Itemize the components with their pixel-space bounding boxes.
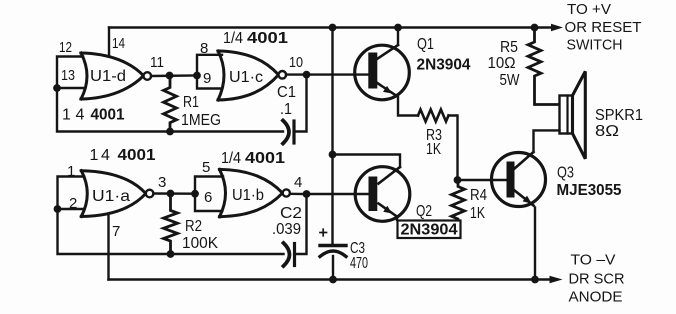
resistor R3 — [418, 110, 449, 122]
svg-text:8: 8 — [200, 40, 208, 57]
wire top +V rail — [109, 26, 552, 28]
svg-text:2N3904: 2N3904 — [417, 57, 471, 74]
svg-text:4: 4 — [101, 147, 110, 164]
svg-text:4001: 4001 — [247, 30, 288, 47]
svg-text:6: 6 — [204, 189, 212, 206]
wire bottom -V rail — [109, 278, 554, 280]
svg-text:R1: R1 — [183, 94, 199, 111]
C3 plus sign — [320, 232, 327, 234]
wire Q2 emitter stub — [396, 217, 398, 220]
wire V+ branch down (rail to Q2 collector and C3) — [331, 28, 333, 245]
node R5 top on rail — [531, 24, 539, 32]
svg-text:7: 7 — [112, 223, 120, 240]
node bubble U1-a output — [146, 190, 154, 198]
svg-text:TO –V: TO –V — [571, 252, 616, 269]
op-amp U1-b NOR gate body — [220, 169, 283, 216]
svg-text:4001: 4001 — [91, 107, 125, 124]
wire branch to Q2 collector — [333, 155, 401, 168]
wire feedback2 left leg — [58, 209, 284, 254]
svg-text:1/4: 1/4 — [223, 30, 243, 47]
wire R3 to node — [449, 116, 458, 181]
svg-text:C2: C2 — [280, 205, 302, 222]
svg-text:1MEG: 1MEG — [181, 112, 221, 129]
svg-text:.039: .039 — [272, 221, 301, 238]
wire C1 right riser — [295, 75, 307, 132]
svg-text:R2: R2 — [185, 218, 202, 235]
svg-text:C1: C1 — [277, 84, 296, 101]
svg-text:R4: R4 — [470, 187, 487, 204]
wire pin 3 to U1-b input — [154, 192, 196, 195]
wire C2 right riser — [290, 194, 307, 254]
capacitor C3 — [320, 244, 346, 247]
speaker SPKR1 — [560, 96, 573, 134]
node Q2-collector branch on rail — [329, 24, 337, 32]
capacitor C1 — [283, 121, 289, 144]
svg-text:2N3904: 2N3904 — [401, 222, 458, 239]
node R2 top tap — [167, 190, 175, 198]
svg-text:3: 3 — [158, 174, 166, 191]
svg-text:12: 12 — [59, 39, 72, 56]
op-amp U1-c NOR gate body — [218, 51, 279, 100]
node U1-c bracket junction — [193, 72, 201, 80]
svg-text:9: 9 — [203, 70, 211, 87]
svg-text:4: 4 — [294, 174, 302, 191]
wire pin 11 to U1-c input — [151, 74, 197, 77]
svg-text:ANODE: ANODE — [569, 289, 623, 306]
svg-text:R5: R5 — [500, 39, 518, 56]
svg-text:8Ω: 8Ω — [595, 123, 619, 140]
svg-text:4001: 4001 — [118, 147, 156, 164]
op-amp U1-a NOR gate body — [81, 171, 146, 217]
wire pin 10 to Q1 base — [286, 73, 368, 75]
node U1-a inputs junction — [54, 205, 62, 213]
node R1 bottom — [166, 128, 174, 136]
node pin 4 junction — [303, 190, 311, 198]
node bubble U1-d output — [144, 72, 152, 80]
svg-text:Q3: Q3 — [557, 165, 574, 182]
svg-text:5W: 5W — [500, 72, 521, 89]
wire Q1 collector — [397, 28, 399, 46]
svg-text:Q1: Q1 — [417, 36, 434, 53]
svg-text:13: 13 — [61, 67, 75, 84]
transistor Q3 — [492, 153, 546, 207]
wire U1-c input bracket pins 8,9 — [197, 55, 222, 89]
node Q1 collector on rail — [394, 24, 402, 32]
svg-text:Q2: Q2 — [416, 203, 432, 220]
node U1-b bracket junction — [191, 190, 199, 198]
wire pin 7 down — [107, 215, 109, 280]
wire pin 14 of U1-d to rail — [108, 28, 110, 56]
svg-text:4001: 4001 — [245, 150, 285, 167]
svg-text:470: 470 — [350, 255, 368, 272]
svg-text:U1-d: U1-d — [90, 68, 126, 85]
svg-text:1: 1 — [67, 163, 75, 180]
svg-text:1: 1 — [90, 147, 99, 164]
svg-text:TO +V: TO +V — [567, 1, 611, 18]
svg-text:.1: .1 — [280, 101, 292, 118]
node pin 10 junction — [303, 71, 311, 79]
op-amp U1-d NOR gate body — [81, 53, 144, 99]
svg-text:5: 5 — [202, 159, 210, 176]
svg-text:2: 2 — [69, 195, 77, 212]
transistor Q1 — [355, 45, 410, 100]
node C3 bottom on rail — [329, 276, 337, 284]
node Q3 emitter on rail — [531, 276, 539, 284]
node R3/R4/Q3-base junction — [454, 176, 462, 184]
wire node to Q3 base — [458, 179, 506, 181]
svg-text:1K: 1K — [470, 205, 485, 222]
node U1-d inputs junction — [53, 84, 61, 92]
svg-text:MJE3055: MJE3055 — [557, 182, 622, 199]
svg-text:100K: 100K — [182, 235, 218, 252]
svg-text:4: 4 — [76, 107, 85, 124]
wire speaker bottom to Q3 collector — [534, 130, 560, 152]
svg-text:1K: 1K — [426, 141, 441, 158]
svg-text:OR RESET: OR RESET — [565, 19, 642, 36]
svg-text:U1·b: U1·b — [232, 187, 264, 204]
capacitor C2 — [284, 243, 290, 266]
svg-text:SPKR1: SPKR1 — [595, 107, 643, 124]
wire U1-d input bracket pins 12,13 — [57, 57, 83, 89]
resistor R2 — [164, 194, 178, 255]
arrow to -V — [550, 276, 563, 284]
node R2 bottom — [167, 250, 175, 258]
svg-text:10: 10 — [289, 54, 303, 71]
svg-text:14: 14 — [112, 35, 125, 52]
resistor R5 — [528, 28, 560, 105]
resistor R1 — [164, 76, 177, 132]
transistor Q2 label box 2N3904 — [398, 221, 461, 239]
node bubble U1-b output — [283, 189, 290, 196]
wire U1-a input bracket pins 1,2 — [58, 177, 85, 210]
wire Q1 emitter to R3 — [398, 97, 418, 116]
svg-text:U1·a: U1·a — [92, 188, 130, 205]
wire Q3 emitter down — [534, 208, 536, 280]
node branch junction — [329, 151, 337, 159]
svg-text:1/4: 1/4 — [221, 150, 241, 167]
wire feedback left leg down — [57, 88, 283, 132]
node bubble U1-c output — [279, 71, 287, 79]
node R1 top tap — [166, 72, 174, 80]
svg-text:DR SCR: DR SCR — [569, 271, 625, 288]
wire U1-b input bracket pins 5,6 — [195, 177, 223, 212]
svg-text:SWITCH: SWITCH — [567, 37, 623, 54]
transistor Q2 — [355, 167, 410, 222]
svg-text:11: 11 — [150, 54, 164, 71]
arrow to +V — [551, 24, 563, 32]
svg-text:1: 1 — [62, 107, 71, 124]
svg-text:10Ω: 10Ω — [488, 55, 516, 72]
resistor R4 — [452, 180, 465, 231]
wire Q2 base — [307, 193, 371, 195]
svg-text:U1·c: U1·c — [229, 69, 263, 86]
